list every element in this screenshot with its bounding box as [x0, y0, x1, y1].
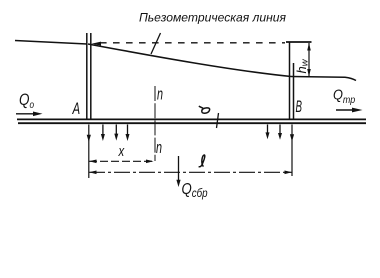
- label Q_сбр: [182, 181, 208, 200]
- arrowhead of head-level dashed line at tube A: [92, 42, 102, 46]
- label d (pipe diameter): [199, 106, 210, 113]
- discharge arrow at B / extension line B: [291, 125, 293, 177]
- svg-text:A: A: [72, 100, 80, 119]
- label n (bottom): [156, 139, 162, 157]
- label h_w (rotated): [294, 58, 311, 73]
- svg-text:B: B: [296, 97, 303, 115]
- label Q_тр (transit flow): [333, 85, 356, 106]
- label x: [118, 142, 126, 159]
- node label B: [296, 97, 303, 115]
- discharge arrows right group: [268, 125, 281, 135]
- leader line from label to piezometric line: [151, 33, 161, 54]
- piezometric line A to B (curved): [88, 44, 291, 77]
- piezometric line tail beyond B: [291, 77, 356, 81]
- svg-text:Пьезометрическая линия: Пьезометрическая линия: [139, 11, 287, 25]
- pipe bottom wall: [18, 122, 366, 124]
- piezometer tube A (double line): [86, 33, 88, 119]
- dimension l line (dash-dot): [89, 171, 292, 173]
- section line n-n: [154, 86, 156, 161]
- dimension h_w line with arrows: [308, 43, 310, 77]
- svg-text:n: n: [157, 85, 163, 103]
- piezometer tube B (double line): [289, 43, 291, 120]
- discharge Q_сбр arrow: [178, 156, 180, 181]
- inflow arrow: [16, 113, 35, 115]
- diameter tick on pipe: [217, 113, 219, 128]
- svg-text:n: n: [156, 139, 162, 157]
- piezometric line left segment (before A): [15, 41, 87, 45]
- label l (script ell): [199, 155, 205, 167]
- label n (top): [157, 85, 163, 103]
- dashed head level line: [100, 42, 285, 44]
- transit flow arrow: [336, 109, 354, 111]
- dimension x line: [89, 160, 154, 162]
- svg-text:x: x: [118, 142, 126, 159]
- pipe top wall: [17, 118, 366, 120]
- label Q_o (inflow): [19, 91, 34, 110]
- top reference bar at B: [286, 41, 312, 43]
- node label A: [72, 100, 80, 119]
- discharge arrows left group: [103, 125, 128, 136]
- discharge arrow at A / extension line A: [88, 125, 90, 179]
